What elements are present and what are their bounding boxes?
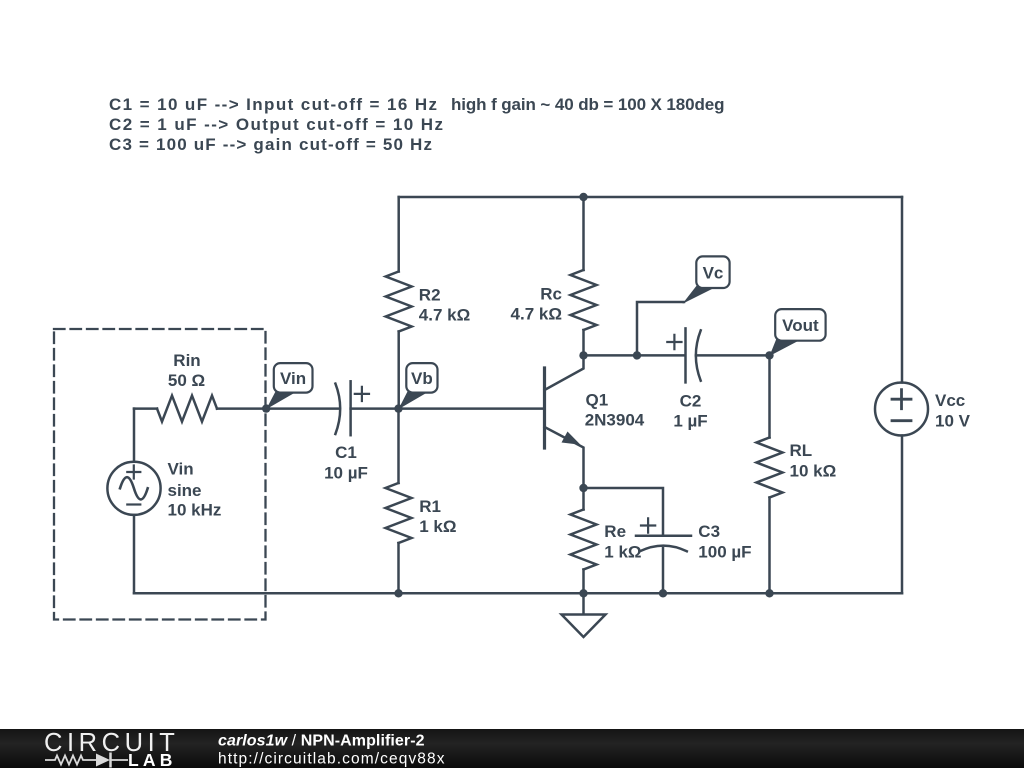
node C3 bottom dot — [659, 589, 667, 597]
svg-text:Q1: Q1 — [586, 391, 609, 410]
wire C2 to Vout node — [696, 354, 770, 357]
svg-text:R2: R2 — [419, 286, 441, 305]
node Vb dot — [394, 404, 402, 412]
svg-text:100 µF: 100 µF — [698, 543, 751, 562]
node R1 bottom dot — [394, 589, 402, 597]
svg-text:C3: C3 — [698, 522, 720, 541]
wire R1 bottom — [397, 543, 400, 593]
svg-text:50 Ω: 50 Ω — [168, 371, 205, 390]
footer bar — [0, 729, 1024, 768]
svg-text:4.7 kΩ: 4.7 kΩ — [511, 305, 562, 324]
node flag Vb — [398, 392, 428, 410]
logo resistor — [45, 756, 96, 765]
wire input row source to Rin — [134, 407, 157, 410]
wire emitter node to Re — [582, 488, 585, 510]
logo diode — [96, 754, 110, 767]
svg-text:sine: sine — [168, 481, 202, 500]
svg-text:RL: RL — [790, 441, 813, 460]
wire Vin source top — [133, 409, 136, 462]
svg-text:Vin: Vin — [280, 369, 306, 388]
svg-text:http://circuitlab.com/ceqv88x: http://circuitlab.com/ceqv88x — [218, 750, 445, 767]
svg-text:10 µF: 10 µF — [324, 464, 368, 483]
node Vout dot — [765, 351, 773, 359]
wire RL bottom — [768, 498, 771, 594]
svg-text:1 kΩ: 1 kΩ — [419, 517, 456, 536]
capacitor C2 — [684, 328, 687, 382]
wire collector rail — [584, 354, 685, 357]
wire R2 column top — [397, 197, 400, 272]
resistor R2 — [386, 272, 412, 332]
svg-text:Vout: Vout — [782, 316, 819, 335]
svg-text:carlos1w / NPN-Amplifier-2: carlos1w / NPN-Amplifier-2 — [218, 733, 425, 750]
svg-text:Vc: Vc — [703, 264, 724, 283]
node flag Vout — [770, 339, 800, 357]
wire Rin to C1 — [217, 407, 339, 410]
resistor R1 — [386, 483, 412, 543]
svg-text:Vcc: Vcc — [935, 391, 965, 410]
node flag Vin — [266, 392, 296, 410]
capacitor C1 — [335, 384, 340, 434]
transistor Q1 — [543, 368, 546, 448]
svg-text:C1: C1 — [335, 443, 357, 462]
wire Vin source bottom — [133, 515, 136, 593]
node collector dot — [579, 351, 587, 359]
wire C3 bottom — [662, 548, 665, 593]
node emitter dot — [579, 484, 587, 492]
resistor Rin — [157, 396, 217, 422]
svg-text:1 µF: 1 µF — [673, 412, 707, 431]
svg-text:10 V: 10 V — [935, 412, 971, 431]
resistor Re — [571, 510, 597, 570]
wire right rail upper (to Vcc) — [901, 197, 904, 383]
svg-text:C1 = 10 uF --> Input cut-off =: C1 = 10 uF --> Input cut-off = 16 Hz — [109, 95, 437, 114]
svg-text:C2 = 1 uF --> Output cut-off =: C2 = 1 uF --> Output cut-off = 10 Hz — [109, 115, 443, 134]
svg-text:10 kHz: 10 kHz — [168, 501, 222, 520]
wire R2 bottom to Vb — [397, 332, 400, 409]
wire emitter node to C3 — [584, 488, 664, 535]
svg-text:C3 = 100 uF --> gain cut-off =: C3 = 100 uF --> gain cut-off = 50 Hz — [109, 135, 432, 154]
ground — [582, 593, 585, 614]
resistor RL — [757, 438, 783, 498]
wire bottom rail — [134, 592, 902, 595]
svg-text:4.7 kΩ: 4.7 kΩ — [419, 306, 470, 325]
node flag Vc — [683, 286, 715, 304]
voltage source Vcc — [875, 383, 928, 436]
svg-text:Rc: Rc — [540, 285, 562, 304]
wire Rc column top — [582, 197, 585, 270]
svg-text:2N3904: 2N3904 — [585, 411, 645, 430]
node Vin dot — [262, 404, 270, 412]
wire Vout to RL — [768, 355, 771, 437]
svg-text:Rin: Rin — [173, 351, 200, 370]
svg-text:1 kΩ: 1 kΩ — [604, 543, 641, 562]
svg-text:Re: Re — [604, 522, 626, 541]
svg-text:Vb: Vb — [411, 369, 433, 388]
wire Re bottom — [582, 570, 585, 594]
wire right rail lower (Vcc to bottom) — [901, 436, 904, 594]
node Vc tap dot — [633, 351, 641, 359]
capacitor C3 — [636, 535, 691, 538]
node RL bottom dot — [765, 589, 773, 597]
wire top rail — [399, 196, 902, 199]
dashed source box — [54, 329, 266, 620]
svg-text:10 kΩ: 10 kΩ — [790, 462, 837, 481]
svg-text:LAB: LAB — [128, 750, 177, 768]
svg-text:Vin: Vin — [168, 460, 194, 479]
voltage source Vin — [107, 462, 160, 515]
wire Vc tap — [637, 302, 684, 355]
svg-text:C2: C2 — [680, 392, 702, 411]
wire C1 to base — [351, 407, 545, 410]
wire R1 top from Vb — [397, 409, 400, 483]
svg-text:high f gain ~ 40 db = 100 X 18: high f gain ~ 40 db = 100 X 180deg — [451, 95, 725, 114]
resistor Rc — [571, 270, 597, 330]
node ground rail dot — [579, 589, 587, 597]
svg-text:R1: R1 — [419, 497, 441, 516]
wire Rc bottom to collector node — [582, 330, 585, 355]
node top rail Rc dot — [579, 193, 587, 201]
